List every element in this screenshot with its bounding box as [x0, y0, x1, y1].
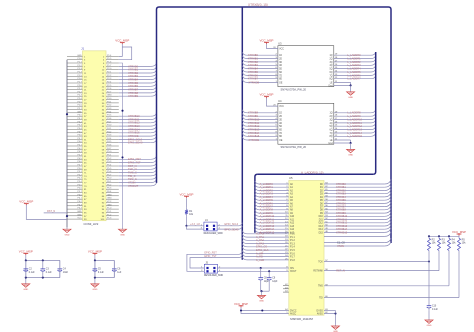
wire header J5 pin3 loop — [187, 254, 239, 271]
wire TCK net down to C10 — [428, 262, 430, 304]
wires U4 output pins — [334, 113, 371, 137]
wire U5 TMS row — [324, 285, 449, 287]
connector J1 right pin numbers — [101, 56, 105, 221]
svg-text:EPIO_SCL0: EPIO_SCL0 — [225, 223, 239, 226]
svg-text:OE: OE — [279, 82, 283, 84]
svg-text:P1.7: P1.7 — [290, 257, 295, 259]
ground cap bank 1 — [25, 282, 27, 284]
svg-text:8Q: 8Q — [330, 79, 333, 81]
wire U4 VCC pin 20 — [267, 98, 278, 106]
bus XTRXB vertical left — [157, 7, 160, 183]
wire C10 to ground — [428, 310, 430, 318]
svg-text:XTRXB10: XTRXB10 — [248, 117, 260, 121]
svg-text:1uF: 1uF — [117, 272, 122, 274]
svg-text:L_LADDR4: L_LADDR4 — [347, 67, 361, 71]
svg-text:RESOLDER_SMD: RESOLDER_SMD — [204, 275, 223, 277]
svg-text:VCC_MSP: VCC_MSP — [88, 249, 102, 253]
wire cap bank 1 bottom rail — [26, 277, 60, 279]
svg-text:P1.0: P1.0 — [290, 234, 295, 236]
header J5 — [204, 264, 217, 273]
svg-text:5D: 5D — [279, 126, 282, 128]
wire cap bank 1 vcc stem — [25, 255, 27, 260]
svg-text:D14: D14 — [319, 229, 324, 231]
svg-text:P1.4: P1.4 — [290, 247, 295, 249]
svg-text:VCC: VCC — [77, 218, 82, 220]
bus entries U4 inputs — [242, 110, 247, 137]
bus XTRXB vertical middle — [241, 7, 243, 260]
svg-text:0.1uF: 0.1uF — [98, 272, 104, 274]
wire pullup rail — [429, 234, 459, 237]
svg-text:CON3_HV2: CON3_HV2 — [84, 222, 99, 226]
bus entries J1 signals — [151, 63, 157, 185]
junction XOUT cap — [268, 270, 270, 272]
svg-text:XTRXOE: XTRXOE — [249, 138, 260, 142]
svg-text:AVCC: AVCC — [290, 312, 297, 315]
svg-text:XT2OUT: XT2OUT — [128, 184, 139, 188]
svg-text:VCC: VCC — [279, 106, 284, 108]
net labels U5 port rows — [256, 232, 269, 262]
ground below caps — [261, 294, 263, 296]
net labels U3 inputs — [248, 53, 259, 81]
bus entries U3 outputs — [371, 52, 376, 78]
connector J1 body — [83, 51, 107, 221]
svg-text:10uF: 10uF — [63, 272, 69, 274]
wire pullup R5 down to TDI — [458, 253, 460, 298]
svg-text:L_LADDR10: L_LADDR10 — [347, 117, 362, 121]
svg-text:TMS: TMS — [318, 286, 323, 288]
svg-text:L_LADDR12: L_LADDR12 — [347, 124, 362, 128]
svg-text:12pF: 12pF — [264, 281, 270, 283]
wire header J5 pin1 loop — [190, 258, 239, 268]
resistor R2 — [428, 236, 430, 238]
svg-text:EPIO_TST: EPIO_TST — [128, 161, 141, 165]
svg-text:8D: 8D — [279, 79, 282, 81]
pin names U3 outputs — [330, 55, 333, 81]
svg-text:D15: D15 — [319, 232, 324, 234]
junction cap gnd rail — [260, 290, 262, 292]
unconnected U5 stubs — [283, 284, 289, 293]
wire VCC to R1 — [186, 198, 188, 208]
svg-text:2D: 2D — [279, 59, 282, 61]
svg-text:VCC: VCC — [279, 48, 284, 50]
svg-text:L_LADDR0: L_LADDR0 — [347, 53, 361, 57]
svg-text:SN74LV373A_PW_20: SN74LV373A_PW_20 — [281, 88, 307, 92]
svg-text:RESOLDER_SMD: RESOLDER_SMD — [204, 233, 223, 235]
capacitor C6 — [113, 260, 115, 269]
svg-text:VCC_MSP: VCC_MSP — [260, 38, 274, 42]
svg-text:XTRXB13: XTRXB13 — [248, 128, 260, 132]
svg-text:GND: GND — [77, 211, 82, 213]
svg-text:TDI: TDI — [319, 297, 323, 299]
svg-text:A12: A12 — [290, 222, 295, 225]
svg-text:U4: U4 — [278, 99, 282, 103]
net labels U3 outputs — [347, 53, 361, 81]
svg-text:EPIO_TST: EPIO_TST — [204, 255, 217, 258]
wires U5 data rows — [324, 184, 385, 232]
bus XTRXB top horizontal — [159, 6, 389, 8]
svg-text:1Q: 1Q — [330, 55, 333, 57]
svg-text:GND: GND — [107, 198, 112, 200]
wire J1 left ground rail — [66, 60, 68, 228]
svg-text:TCK: TCK — [318, 261, 323, 263]
capacitor C3 — [42, 260, 44, 269]
wire XIN from header to U5 — [218, 267, 289, 269]
svg-text:0.1uF: 0.1uF — [432, 309, 438, 311]
svg-text:D13: D13 — [319, 226, 324, 228]
svg-text:2Q: 2Q — [330, 59, 333, 61]
svg-text:XTRXOE: XTRXOE — [249, 80, 260, 84]
svg-text:MSP430_1611PM: MSP430_1611PM — [290, 317, 313, 321]
wire cap bank 2 bottom rail — [95, 277, 114, 279]
ground J1 right — [122, 227, 124, 229]
wire R1 to header pin 1 — [186, 216, 188, 226]
bus entry EPIO_SDA — [239, 226, 242, 229]
svg-text:3Q: 3Q — [330, 62, 333, 64]
wire U5 RST row — [324, 270, 439, 272]
svg-text:4D: 4D — [279, 65, 282, 67]
svg-text:D12: D12 — [319, 223, 324, 225]
wire U4 LE pin 11 — [334, 139, 351, 141]
pin names U4 inputs — [279, 113, 282, 139]
resistor R3 — [438, 236, 440, 238]
wire cap bank 1 top rail — [26, 259, 60, 261]
junction rail R4 — [448, 235, 450, 237]
svg-text:D10: D10 — [319, 216, 324, 218]
svg-text:2Q: 2Q — [330, 116, 333, 118]
capacitor C8 — [260, 268, 262, 278]
svg-text:6D: 6D — [279, 130, 282, 132]
junction DVSS — [334, 312, 336, 314]
svg-text:LE: LE — [330, 82, 333, 84]
wire header J4 pin4 right — [217, 228, 239, 230]
svg-text:XT2IN: XT2IN — [337, 245, 344, 248]
pin numbers U3 inputs — [275, 54, 277, 79]
wire cap gnd rail — [261, 290, 270, 292]
svg-text:GND: GND — [77, 55, 82, 57]
svg-text:XTRXB4: XTRXB4 — [128, 78, 139, 82]
svg-text:P1.2: P1.2 — [290, 240, 295, 242]
svg-text:U5: U5 — [289, 176, 293, 180]
ground below C10 — [428, 318, 430, 320]
svg-text:A10: A10 — [290, 215, 295, 218]
junction on right ground rail 2 — [121, 156, 123, 158]
svg-text:XTRXB7: XTRXB7 — [248, 77, 259, 81]
svg-text:XTRXB14: XTRXB14 — [128, 127, 140, 131]
svg-text:XTRXB12: XTRXB12 — [248, 124, 260, 128]
svg-text:1Q: 1Q — [330, 113, 333, 115]
svg-text:12pF: 12pF — [272, 281, 278, 283]
wire cap bank 2 top rail — [95, 259, 114, 261]
svg-text:1D: 1D — [279, 55, 282, 57]
junction cap bank1 a — [25, 259, 27, 261]
pin names U5 LADDR — [290, 183, 295, 234]
wire J1 right ground rail — [119, 63, 123, 227]
latch U3 body — [278, 46, 334, 87]
junction cap bank1 b — [42, 259, 44, 261]
wire cap bank 1 right drop — [59, 260, 61, 277]
pin numbers U5 LADDR — [285, 183, 288, 233]
junction R1 net — [185, 225, 187, 227]
junction TCK pullup — [428, 260, 430, 262]
bus entries U4 outputs — [371, 110, 376, 137]
junction on left ground rail 2 — [66, 215, 68, 217]
wires U4 input pins — [247, 113, 278, 137]
wire U4 OE pin 1 — [247, 139, 278, 141]
wire pullup R2 down to TCK — [428, 253, 430, 262]
bus A_LADDR horizontal — [257, 173, 373, 175]
pin numbers U5 data rows — [325, 183, 328, 233]
capacitor C9 — [268, 271, 270, 277]
ground below U4 — [350, 143, 352, 149]
wire VCC to U5 DVCC AVCC — [241, 307, 289, 313]
svg-text:5Q: 5Q — [330, 69, 333, 71]
pin numbers U5 port rows — [285, 232, 288, 260]
svg-text:3Q: 3Q — [330, 119, 333, 121]
bus entry EPIO_RST — [239, 251, 242, 254]
svg-text:4Q: 4Q — [330, 65, 333, 67]
wire header J4 pin3 left — [187, 226, 204, 229]
bus entry U3 OE — [242, 79, 247, 82]
wire cap bank 2 right drop — [113, 260, 115, 277]
svg-text:P1.6: P1.6 — [290, 253, 295, 255]
svg-text:L_LADDR13: L_LADDR13 — [347, 128, 362, 132]
net labels J1 signals — [128, 64, 143, 188]
latch U4 body — [278, 103, 334, 144]
ground cap bank 2 — [94, 282, 96, 284]
svg-text:VCC_MSP: VCC_MSP — [260, 93, 274, 97]
junction DVCC 2 — [261, 309, 263, 311]
mcu U5 body — [289, 181, 324, 316]
connector J1 right pin stubs — [106, 56, 119, 219]
wire U3 LE to GND — [350, 82, 352, 85]
wire J1 pin4 to VCC — [119, 47, 132, 60]
bus entries U5 port rows — [242, 231, 247, 260]
ground right of U5 — [335, 324, 337, 326]
wire cap bank 1 left drop — [25, 260, 27, 282]
svg-text:VCC_MSP: VCC_MSP — [234, 302, 248, 306]
pin names U3 inputs — [279, 55, 282, 81]
capacitor C10 — [428, 303, 430, 306]
junction on left ground rail 1 — [66, 113, 68, 115]
svg-text:TDO_C: TDO_C — [128, 177, 137, 181]
svg-text:Gnd: Gnd — [328, 85, 333, 87]
svg-text:VCC: VCC — [107, 201, 112, 203]
junction U3 LE/GND — [350, 84, 352, 86]
wire pullup R3 down to RST — [438, 253, 440, 271]
junction U4 LE/GND — [350, 142, 352, 144]
resistor R4 — [448, 236, 450, 238]
wire pullup R4 down to TMS — [448, 253, 450, 286]
svg-text:XTRXB9: XTRXB9 — [128, 94, 139, 98]
wire cap bank 2 vcc stem — [94, 255, 96, 260]
svg-text:DVCC: DVCC — [290, 310, 297, 312]
wire VCC to J1 pin 99 — [26, 205, 67, 219]
bus A_LADDR vertical right — [373, 52, 376, 174]
svg-text:L_LADDR2: L_LADDR2 — [347, 60, 361, 64]
svg-text:A14: A14 — [290, 228, 295, 231]
svg-text:VCC_MSP: VCC_MSP — [19, 249, 33, 253]
capacitor C5 — [94, 260, 96, 269]
svg-text:XTRXB4: XTRXB4 — [248, 67, 259, 71]
svg-text:3D: 3D — [279, 119, 282, 121]
svg-text:1D: 1D — [279, 113, 282, 115]
junction DVCC — [240, 309, 242, 311]
svg-text:0.1uF: 0.1uF — [29, 272, 35, 274]
net labels U4 outputs — [347, 111, 362, 139]
wire U3 VCC pin 20 — [267, 44, 278, 49]
svg-text:8Q: 8Q — [330, 136, 333, 138]
wire U4 GND pin 10 — [334, 142, 351, 144]
svg-text:XTRXB0: XTRXB0 — [248, 53, 259, 57]
net labels U4 inputs — [248, 111, 260, 139]
capacitor C2 — [25, 260, 27, 269]
svg-text:J1: J1 — [81, 47, 85, 51]
svg-text:GND: GND — [77, 111, 82, 113]
wires U5 LADDR pins — [259, 184, 289, 232]
svg-text:L_LADDR8: L_LADDR8 — [347, 111, 361, 115]
resistor R1 — [186, 208, 188, 210]
svg-text:VCC_MSP: VCC_MSP — [115, 39, 129, 43]
svg-text:P1.5: P1.5 — [290, 250, 295, 252]
junction cap bank1 d — [42, 277, 44, 279]
svg-text:VCC_MSP: VCC_MSP — [452, 230, 466, 234]
svg-text:5D: 5D — [279, 69, 282, 71]
bus entry EPIO_TST — [239, 255, 242, 258]
svg-text:AVSS: AVSS — [317, 312, 323, 315]
svg-text:7Q: 7Q — [330, 133, 333, 135]
wire U5 DVCC row — [241, 310, 289, 312]
svg-text:XTRXB5: XTRXB5 — [248, 70, 259, 74]
svg-text:GND: GND — [65, 234, 70, 236]
wire header J4 pin1 left — [187, 225, 204, 227]
bus A_LADDR vertical left — [255, 174, 258, 233]
svg-text:6Q: 6Q — [330, 72, 333, 74]
svg-text:6Q: 6Q — [330, 130, 333, 132]
svg-text:L_LADDR7: L_LADDR7 — [347, 77, 361, 81]
connector J1 left pin numbers — [84, 56, 87, 221]
svg-text:GND: GND — [23, 289, 28, 291]
svg-text:GND: GND — [259, 301, 264, 303]
svg-text:7D: 7D — [279, 75, 282, 77]
junction rail R2 — [428, 235, 430, 237]
connector J1 left pin names — [77, 55, 82, 220]
net labels U5 LADDR — [260, 182, 275, 234]
net labels U5 clock rows — [337, 242, 345, 248]
svg-text:4Q: 4Q — [330, 123, 333, 125]
wires U5 clock rows — [324, 236, 385, 246]
junction cap bank1 c — [25, 277, 27, 279]
wire header J4 pin2 right — [217, 225, 239, 227]
wire RST_N to J1 pin — [44, 212, 67, 214]
svg-text:6D: 6D — [279, 72, 282, 74]
svg-text:P1.1: P1.1 — [290, 237, 295, 239]
svg-text:GND: GND — [107, 95, 112, 97]
wires U3 output pins — [334, 55, 371, 78]
resistor R5 — [458, 236, 460, 238]
svg-text:2D: 2D — [279, 116, 282, 118]
svg-text:XTRXB15: XTRXB15 — [248, 134, 260, 138]
bus entries U5 LADDR — [255, 181, 259, 232]
svg-text:GND: GND — [120, 234, 125, 236]
wire U5 TDI row — [324, 297, 459, 299]
junction cap bank2 a — [94, 259, 96, 261]
svg-text:EPIO_SDA0: EPIO_SDA0 — [225, 228, 240, 231]
svg-text:U3: U3 — [278, 41, 282, 45]
junction cap bank2 b — [94, 277, 96, 279]
bus entries U3 inputs — [242, 52, 247, 78]
svg-text:RST/NMI: RST/NMI — [313, 271, 323, 273]
svg-text:7Q: 7Q — [330, 75, 333, 77]
bus XTRXB vertical right — [389, 7, 392, 243]
junction XIN cap — [260, 267, 262, 269]
pin names U4 outputs — [330, 113, 333, 139]
svg-text:XTRXB(0..15): XTRXB(0..15) — [248, 3, 268, 7]
wire DVSS join — [335, 311, 337, 314]
svg-text:XTRXB2: XTRXB2 — [248, 60, 259, 64]
svg-text:D11: D11 — [319, 219, 324, 221]
wire U4 LE to GND — [350, 140, 352, 143]
wire U3 GND pin 10 — [334, 84, 351, 86]
bus entry U4 OE — [242, 137, 247, 140]
svg-text:0.1uF: 0.1uF — [46, 272, 52, 274]
wires U3 input pins — [247, 55, 278, 78]
wires U5 port rows — [247, 234, 289, 260]
junction rail R3 — [438, 235, 440, 237]
bus entries U5 clock rows — [385, 232, 391, 246]
pin names U5 data rows — [319, 184, 324, 234]
net labels U5 data rows — [336, 182, 348, 234]
svg-text:A_ALE: A_ALE — [256, 258, 264, 262]
svg-text:XIN: XIN — [290, 268, 294, 270]
wire XOUT from header to U5 — [218, 270, 289, 272]
svg-text:GND: GND — [348, 155, 353, 157]
svg-text:XTRXB8: XTRXB8 — [248, 111, 259, 115]
capacitor C4 — [59, 260, 61, 269]
svg-text:XTRXB15: XTRXB15 — [336, 230, 348, 234]
svg-text:C10: C10 — [432, 305, 437, 307]
junction on right ground rail 1 — [121, 110, 123, 112]
svg-text:7D: 7D — [279, 133, 282, 135]
svg-text:LE: LE — [330, 140, 333, 142]
svg-text:GND: GND — [92, 289, 97, 291]
wire U3 OE pin 1 — [247, 81, 278, 83]
wires J1 signals to bus — [119, 66, 151, 185]
wire caps to ground — [261, 291, 263, 293]
connector J1 right pin names — [107, 55, 112, 220]
svg-text:VCC_MSP: VCC_MSP — [180, 192, 194, 196]
svg-text:EPIO_SDA0: EPIO_SDA0 — [128, 141, 143, 145]
svg-text:GND: GND — [77, 214, 82, 216]
svg-text:A_LADDR(0..15): A_LADDR(0..15) — [301, 171, 324, 175]
svg-text:+3.3_1.8: +3.3_1.8 — [190, 223, 200, 226]
header J4 — [204, 222, 217, 231]
svg-text:RST_N: RST_N — [336, 269, 345, 273]
svg-text:L_LADDR15: L_LADDR15 — [347, 134, 362, 138]
ground below U3 — [350, 85, 352, 91]
svg-text:SN74LV373A_PW_20: SN74LV373A_PW_20 — [281, 145, 307, 149]
svg-text:P1.3: P1.3 — [290, 244, 295, 246]
pin numbers U4 inputs — [275, 111, 277, 137]
svg-text:P1.8: P1.8 — [290, 260, 295, 262]
wire U3 LE pin 11 — [334, 81, 351, 83]
svg-text:8D: 8D — [279, 136, 282, 138]
bus entries U5 data rows — [385, 180, 391, 233]
svg-text:4D: 4D — [279, 123, 282, 125]
svg-text:GND: GND — [107, 204, 112, 206]
pin names U5 port rows — [290, 234, 295, 262]
svg-text:Gnd: Gnd — [328, 143, 333, 145]
svg-text:GND: GND — [348, 97, 353, 99]
